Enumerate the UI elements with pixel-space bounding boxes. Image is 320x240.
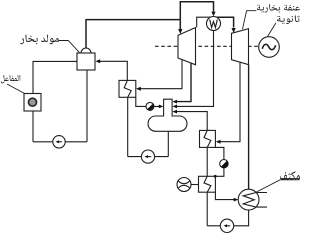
reactor core [29, 98, 37, 106]
label: steam turbine (anfa bukhariya) [257, 4, 300, 13]
arrowhead into deaerator middle inlet [172, 105, 177, 109]
heater HX1 [119, 80, 136, 97]
wire main steam: SG dome to T junction [86, 20, 180, 48]
air ejector [177, 178, 191, 192]
deaerator column [164, 99, 173, 118]
wire main steam branch up and over to W unit [180, 2, 213, 20]
heater HX2 [200, 130, 216, 147]
condenser [238, 189, 259, 210]
wire primary bottom run through pump [33, 141, 87, 143]
wire LP exhaust down to condenser top [248, 65, 250, 190]
wire W unit right to LP turbine inlet [214, 17, 234, 27]
label leader: reactor [7, 84, 24, 93]
wire HX2 drain through trap to HX3 top corner [215, 147, 224, 176]
wire primary left riser to reactor bottom [32, 111, 34, 142]
label: the reactor (al-mufael) [1, 75, 20, 83]
arrowhead into HX1 right [136, 87, 141, 91]
wire HP extraction 1 down and left to heater HX1 [140, 59, 182, 88]
reheater W unit [207, 17, 221, 31]
arrowhead into deaerator bottom inlet [172, 110, 177, 114]
wire condenser cooling water stubs [256, 193, 267, 208]
arrowhead into LP turbine [232, 28, 236, 33]
wire primary hot leg: reactor top to steam generator left [33, 61, 77, 93]
arrowhead into HP turbine [178, 29, 182, 34]
label: condenser (mukathif) [280, 171, 300, 179]
heater HX3 [199, 176, 216, 192]
label: steam generator (molid bukhar) [20, 35, 59, 45]
wire air ejector to HX3 left [191, 184, 199, 186]
label leader: steam generator [59, 41, 80, 53]
arrowhead into SG right inlet [95, 59, 100, 63]
steam trap 1 [146, 102, 154, 110]
feedwater pump [141, 150, 154, 163]
shaft dashed line [155, 45, 259, 47]
HP steam turbine [178, 28, 196, 65]
LP steam turbine [232, 29, 249, 65]
wire primary cold leg: SG bottom down [86, 70, 88, 142]
arrowhead into deaerator left inlet [159, 105, 164, 109]
wire LP extraction down and left to heater HX2 [219, 62, 240, 142]
wire condensate between HX2 and HX3 [206, 147, 208, 176]
steam generator vessel [77, 48, 95, 70]
wire feedwater: HX1 top up and left to SG right inlet [98, 61, 127, 80]
generator [259, 37, 280, 58]
label leader: steam turbine [243, 11, 257, 30]
arrowhead into deaerator top inlet [172, 100, 177, 104]
arrowhead into HX2 right [216, 140, 221, 144]
wire main steam branch down to HP turbine [179, 20, 181, 30]
wire HX3 drain to condenser left inlet [215, 192, 236, 199]
arrowhead into W unit [211, 12, 215, 17]
wire condensate from HX3 bottom down to condensate pump run [206, 192, 208, 226]
arrowhead into condenser left [234, 198, 239, 202]
wire HP extraction 2 down and left to deaerator top inlet [174, 62, 191, 101]
condensate pump [220, 219, 233, 232]
primary coolant pump [53, 136, 65, 148]
wire condensate from deaerator tank bottom down [167, 131, 169, 157]
wire condensate riser: deaerator bottom inlet from HX2 top [174, 112, 207, 131]
wire W unit bottom drain down to deaerator middle inlet [174, 29, 214, 106]
deaerator tank [148, 116, 187, 131]
wire condenser bottom to condensate pump run [207, 210, 248, 226]
label leader: secondary [267, 23, 276, 37]
label leader: condenser [256, 180, 300, 193]
wire HP turbine exhaust to W unit left [197, 17, 214, 27]
wire feedwater riser from pump loop to HX1 bottom [127, 97, 129, 156]
steam trap 2 [220, 160, 228, 168]
junction node at HX3 top corner [214, 175, 217, 178]
wire feedwater pump run [128, 156, 169, 158]
wire HX1 drain to deaerator left inlet [136, 97, 161, 106]
reactor vessel [24, 94, 41, 112]
label: secondary (thanawiya) [277, 15, 300, 24]
